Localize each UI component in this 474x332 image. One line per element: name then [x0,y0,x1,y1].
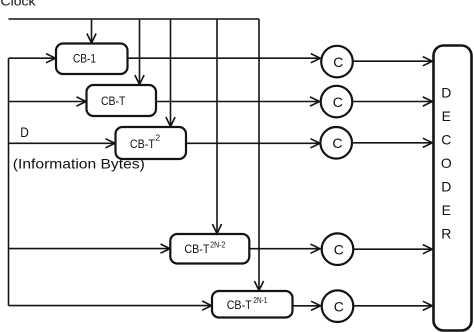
wire D input vertical bus [8,58,10,305]
wire C4 to decoder [354,248,432,250]
arrowhead into CB-T2N-1 top [254,281,263,291]
arrowhead into CB-T2 top [166,117,175,127]
arrowhead into CB-T2 left [106,139,116,148]
svg-text:C: C [333,54,343,70]
arrowhead into C4 [311,244,321,253]
wire CB-T2N-1 output to C5 [293,305,320,307]
wire clock drop 1 to CB-1 [91,19,93,43]
arrowhead into decoder row3 [423,138,433,147]
arrowhead into CB-T2N-2 top [212,224,221,234]
wire C2 to decoder [353,101,432,103]
svg-text:2: 2 [155,133,160,143]
arrowhead into CB-1 top [87,34,96,44]
svg-text:C: C [441,132,451,148]
wire clock drop 4 to CB-T2N-2 [216,19,218,233]
svg-text:E: E [442,108,451,124]
arrowhead into CB-T left [77,97,87,106]
wire C1 to decoder [353,60,431,62]
svg-text:E: E [442,202,451,218]
wire CB-1 output to C1 [128,57,320,59]
svg-text:D: D [20,124,29,140]
wire D branch row4 [9,248,170,250]
wire CB-T2N-2 output to C4 [249,248,319,250]
wire CB-T2 output to C3 [186,142,319,144]
arrowhead into CB-T top [135,75,144,85]
svg-text:CB-T: CB-T [184,242,210,256]
wire C3 to decoder [352,142,431,144]
arrowhead into decoder row5 [423,301,433,310]
wire clock bus horizontal [9,18,260,20]
arrowhead into C2 [310,97,320,106]
arrowhead into decoder row2 [423,97,433,106]
block CB-T [87,85,157,116]
arrowhead into C5 [311,301,321,310]
arrowhead into C3 [311,139,321,148]
block DECODER [434,46,472,331]
arrowhead into CB-1 left [46,54,56,63]
svg-text:C: C [332,135,342,151]
encoder circle C2 [321,86,353,118]
svg-text:C: C [334,242,344,258]
svg-text:D: D [441,178,451,194]
svg-text:C: C [334,299,344,315]
wire D branch row1 [9,57,55,59]
node D label [20,124,29,140]
svg-text:Clock: Clock [1,0,37,9]
svg-text:C: C [333,94,343,110]
svg-text:O: O [441,155,452,171]
svg-text:CB-T: CB-T [227,298,253,312]
arrowhead into CB-T2N-2 left [161,244,171,253]
wire D branch row5 [9,305,211,307]
svg-text:CB-1: CB-1 [73,52,96,66]
block CB-1 [56,44,128,75]
block CB-T^2 [116,127,187,159]
svg-text:2N-1: 2N-1 [253,295,267,305]
svg-text:D: D [441,85,451,101]
wire D branch row3 [9,142,115,144]
arrowhead into decoder row4 [423,245,433,254]
svg-text:R: R [441,225,451,241]
encoder circle C3 [320,127,352,159]
arrowhead into decoder row1 [423,57,433,66]
svg-text:2N-2: 2N-2 [210,240,225,250]
svg-text:CB-T: CB-T [101,94,126,108]
svg-text:CB-T: CB-T [130,137,156,151]
wire CB-T output to C2 [156,101,319,103]
wire clock drop 3 to CB-T2 [170,19,172,126]
block CB-T^2N-2 [170,234,249,264]
encoder circle C4 [322,233,354,265]
wire D branch row2 [9,101,86,103]
arrowhead into CB-T2N-1 left [202,301,212,310]
node Clock label [1,0,37,9]
wire clock drop 5 to CB-T2N-1 [258,19,260,290]
encoder circle C5 [322,290,354,322]
encoder circle C1 [321,46,353,78]
wire C5 to decoder [354,305,432,307]
arrowhead into C1 [311,54,321,63]
node Information Bytes label [13,156,145,172]
wire clock drop 2 to CB-T [139,19,141,84]
block CB-T^2N-1 [212,291,293,318]
